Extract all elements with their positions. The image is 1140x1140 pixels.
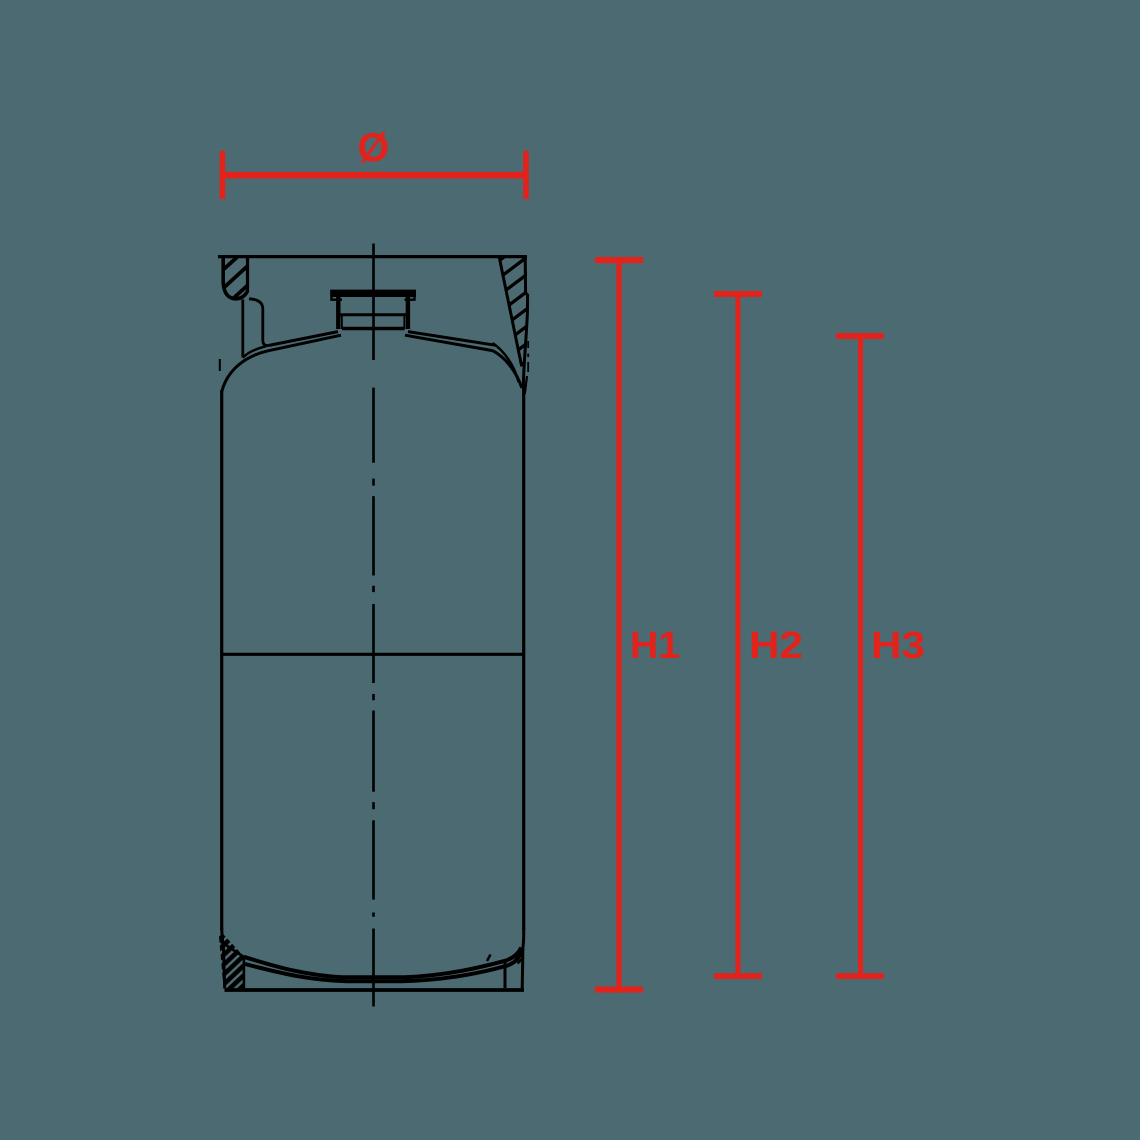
neck left wall — [336, 297, 340, 329]
svg-text:H1: H1 — [630, 625, 680, 667]
neck right inner line — [403, 315, 405, 329]
bottom-left skirt hatching — [208, 922, 264, 1006]
H1 dimension line — [617, 257, 622, 993]
keg top rim line — [218, 255, 527, 258]
neck right wall — [406, 297, 410, 329]
left neck inner wall B with corners — [249, 299, 269, 346]
bottom-left outer corner — [222, 928, 225, 989]
right chime inner slant edge — [499, 258, 521, 366]
right chime hatching — [484, 236, 556, 392]
right chime outer edge — [523, 256, 527, 390]
centerline — [372, 244, 375, 1007]
right shoulder outer curve — [493, 351, 522, 388]
right shoulder inner curve — [493, 343, 519, 382]
left top-dome lower slope — [268, 335, 341, 351]
left rim lip tail — [219, 359, 221, 371]
diameter dimension line — [222, 172, 527, 179]
H3 dimension line — [858, 333, 863, 979]
left chime hatching — [213, 250, 268, 317]
right wedge tail — [525, 376, 527, 394]
neck mid line — [340, 313, 406, 316]
bottom dome tick mark — [487, 955, 491, 962]
neck left inner line — [341, 315, 343, 329]
H2 bottom cap — [714, 973, 762, 979]
left top-dome upper slope — [269, 332, 338, 346]
bottom dome upper line — [244, 948, 521, 978]
svg-text:H2: H2 — [749, 625, 803, 667]
H2 dimension line — [736, 291, 741, 979]
diameter left tick — [220, 151, 226, 199]
right body wall — [522, 388, 525, 930]
left shoulder inner curve — [243, 346, 266, 358]
left neck inner wall A — [241, 300, 244, 358]
H1 bottom cap — [595, 987, 643, 993]
H3 bottom cap — [836, 973, 884, 979]
neck flange left lip — [332, 297, 343, 300]
H2 top cap — [714, 291, 762, 297]
diameter right tick — [523, 151, 529, 199]
svg-text:Ø: Ø — [357, 124, 389, 170]
left chime outer edge — [223, 256, 247, 299]
neck flange top bar — [330, 290, 416, 297]
H3 top cap — [836, 333, 884, 339]
left body wall — [220, 390, 223, 930]
svg-text:H3: H3 — [871, 625, 925, 667]
bottom-right outer corner — [522, 928, 524, 989]
bottom dome lower line — [245, 951, 522, 982]
bottom rim line — [225, 988, 525, 992]
right top-dome upper slope — [408, 332, 496, 346]
left shoulder outer curve — [222, 351, 268, 392]
neck bottom line — [342, 327, 405, 330]
right rim lip broken edge — [527, 341, 529, 372]
left chime inner edge — [246, 256, 249, 293]
bottom-left skirt edge — [221, 942, 244, 989]
H1 top cap — [595, 257, 643, 263]
neck flange right lip — [405, 297, 415, 300]
bottom-right skirt hatch marks — [516, 953, 524, 964]
right top-dome lower slope — [405, 335, 493, 350]
weld seam line — [222, 653, 524, 656]
bottom-right skirt inner vertical — [504, 962, 507, 988]
